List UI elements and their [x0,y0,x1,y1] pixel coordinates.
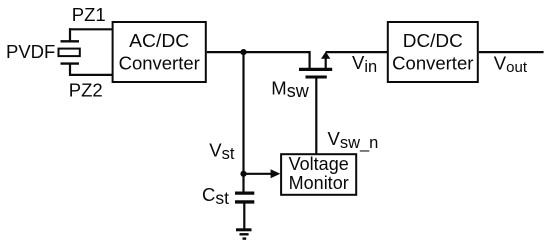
svg-text:PZ2: PZ2 [69,80,103,101]
svg-text:Converter: Converter [392,53,473,74]
svg-text:Voltage: Voltage [289,154,349,174]
svg-text:PZ1: PZ1 [72,4,106,25]
svg-text:AC/DC: AC/DC [129,30,189,51]
svg-text:Monitor: Monitor [289,173,349,193]
svg-text:PVDF: PVDF [6,41,55,62]
svg-text:Converter: Converter [119,53,200,74]
svg-text:Msw: Msw [271,77,309,101]
svg-text:DC/DC: DC/DC [403,30,463,51]
svg-text:Cst: Cst [202,184,229,208]
